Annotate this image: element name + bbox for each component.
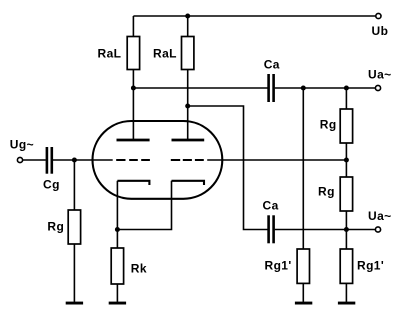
node: dot at x=303 on upper output wire [301, 86, 306, 91]
wire: input cap to grid (solid part entering tube) [53, 159, 113, 161]
wire: right Rg1' bottom lead [345, 283, 347, 302]
wire: left RaL bottom lead to node [132, 70, 134, 89]
wire: right RaL top lead [187, 16, 189, 37]
node: junction dot on supply rail above right RaL [185, 14, 190, 19]
node: grid node dot between Rg resistors [344, 158, 349, 163]
svg-text:Rg1': Rg1' [265, 259, 292, 273]
grid (right triode, dashed) [171, 159, 204, 161]
svg-text:Rg: Rg [318, 185, 335, 199]
resistor RaL (left) [127, 37, 139, 70]
wire: Ug~ terminal to input cap [23, 159, 46, 161]
wire: lower Rg to lower output node [345, 211, 347, 249]
wire: Rk bottom lead [116, 284, 118, 302]
grid (left triode, dashed) [116, 159, 150, 161]
svg-text:Ua~: Ua~ [368, 209, 392, 223]
anode plate (right triode) [172, 139, 205, 142]
tube envelope (dual triode) [93, 121, 223, 199]
terminal Ug~ (open circle) [17, 157, 22, 162]
resistor Rk [111, 248, 123, 284]
resistor Rg (upper right) [340, 109, 352, 143]
wire: right grid out of tube to Rg divider node [207, 159, 346, 161]
ground (below left Rg1') [295, 302, 312, 305]
wire: left cathode lead down [116, 181, 118, 230]
resistor Rg1' (right) [340, 249, 352, 283]
svg-text:Ua~: Ua~ [368, 68, 392, 82]
wire: vertical from upper output node down to left Rg1' [302, 88, 304, 249]
wire: right anode node to corner, down to lower cap [188, 106, 268, 230]
wire: upper cap to Ua~ terminal [275, 87, 376, 89]
wire: top supply rail [133, 15, 375, 17]
svg-text:Ca: Ca [264, 58, 280, 72]
wire: right column from upper output node down to Rg [345, 88, 347, 109]
anode plate (left triode) [117, 139, 150, 142]
node: right anode node dot [185, 104, 190, 109]
terminal Ub (open circle) [376, 13, 381, 18]
wire: left anode node to upper coupling cap [133, 87, 267, 89]
wire: cathode node to Rk [116, 230, 118, 249]
svg-text:Ug~: Ug~ [10, 137, 34, 151]
wire: right cathode lead down and across to cathode node [117, 181, 171, 230]
ground (below Rk) [109, 302, 126, 305]
node: left anode node dot [131, 86, 136, 91]
wire: left Rg1' bottom lead [302, 283, 304, 302]
svg-text:Ca: Ca [263, 198, 279, 212]
ground (below right Rg1') [338, 302, 355, 305]
svg-text:Ub: Ub [372, 24, 389, 38]
svg-text:Rk: Rk [131, 261, 147, 275]
svg-text:Rg: Rg [47, 220, 64, 234]
svg-text:RaL: RaL [98, 47, 122, 61]
svg-text:Rg: Rg [320, 117, 337, 131]
svg-text:Cg: Cg [43, 178, 60, 192]
wire: left RaL top lead [132, 16, 134, 37]
resistor Rg (lower right) [340, 177, 352, 211]
terminal Ua~ (lower, open circle) [375, 227, 380, 232]
wire: lower cap to lower Ua~ terminal [275, 229, 376, 231]
cathode (left triode) [117, 181, 149, 185]
capacitor Ca (upper) [267, 74, 270, 102]
wire: right RaL bottom lead to node [187, 70, 189, 107]
node: cathode junction dot [115, 227, 120, 232]
cathode (right triode) [172, 181, 205, 185]
wire: input node down to grid resistor Rg [73, 160, 75, 210]
node: dot at x=346 on upper output wire [344, 86, 349, 91]
wire: right anode lead into tube [187, 106, 189, 139]
svg-text:RaL: RaL [153, 47, 177, 61]
ground (below input Rg) [66, 302, 83, 305]
resistor Rg (input, left) [68, 210, 80, 244]
wire: input Rg bottom lead [73, 244, 75, 302]
node: dot at x=346 on lower output wire [344, 227, 349, 232]
wire: left anode lead into tube [132, 88, 134, 139]
resistor RaL (right) [182, 37, 194, 70]
svg-text:Rg1': Rg1' [357, 259, 384, 273]
node: input grid node dot [72, 158, 77, 163]
wire: between the two right Rg resistors [345, 143, 347, 177]
capacitor Ca (lower) [267, 215, 270, 243]
capacitor Cg [46, 147, 49, 174]
resistor Rg1' (left) [297, 249, 309, 283]
terminal Ua~ (upper, open circle) [375, 85, 380, 90]
